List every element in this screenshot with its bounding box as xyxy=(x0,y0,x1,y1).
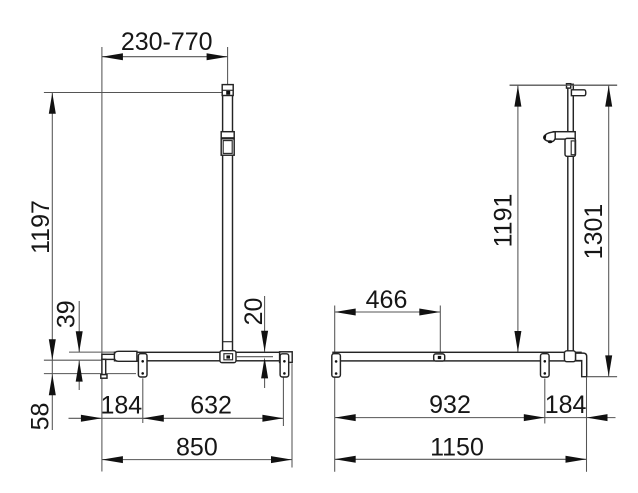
bottom elbow xyxy=(564,351,575,362)
dimension 230-770 line xyxy=(102,56,228,58)
svg-text:184: 184 xyxy=(100,392,142,420)
extension line foot-bottom (y=373.6) xyxy=(44,373,136,375)
svg-text:230-770: 230-770 xyxy=(121,28,213,56)
dimension 850 line xyxy=(102,459,292,461)
dimension 20 line xyxy=(264,296,266,352)
arrow 632 left xyxy=(143,415,164,422)
extension line flange1 center (x=142.8) xyxy=(142,378,144,423)
svg-text:1197: 1197 xyxy=(27,200,55,254)
svg-text:20: 20 xyxy=(240,298,268,326)
flange left xyxy=(332,354,341,377)
hand shower head xyxy=(544,132,555,142)
hand shower spray tip wedge xyxy=(543,135,546,140)
svg-text:1191: 1191 xyxy=(489,194,517,248)
arrow 39 bottom xyxy=(76,361,83,382)
rail joint line xyxy=(223,341,233,343)
hook leg xyxy=(102,359,106,374)
bar left step xyxy=(102,354,115,359)
extension line top (y=85.2) xyxy=(510,84,617,86)
arrow 1191 bottom xyxy=(514,331,521,352)
dimension 466 line xyxy=(335,311,441,313)
sleeve xyxy=(114,351,136,361)
arrow 850 left xyxy=(102,456,123,463)
arrow 632 right xyxy=(262,415,283,422)
arrow 39 top xyxy=(76,331,83,352)
top wall arm xyxy=(571,90,585,96)
extension line hook-bottom (y=360.2) xyxy=(44,359,102,361)
arrow 1197 bottom xyxy=(49,339,56,360)
center clip xyxy=(434,354,445,361)
arrow 850 right xyxy=(271,456,292,463)
dimension 1197 line xyxy=(51,93,53,360)
arrow 466 right xyxy=(419,309,440,316)
arrow 20 top xyxy=(261,331,268,352)
svg-text:1150: 1150 xyxy=(430,434,484,462)
svg-text:850: 850 xyxy=(176,434,218,462)
bar tube side xyxy=(333,352,581,361)
hand shower handle xyxy=(553,132,575,139)
arrow 58 bottom xyxy=(49,374,56,395)
arrow 20 bottom xyxy=(261,357,268,378)
hook foot xyxy=(101,375,107,379)
rail tube side xyxy=(568,84,574,351)
extension line flange2 center (x=283.4) xyxy=(282,378,284,427)
wall return tube and leg xyxy=(576,353,587,377)
dimension 932/184 line xyxy=(335,417,587,419)
dimension 1191 line xyxy=(517,86,519,352)
arrow 230-770 left xyxy=(102,53,123,60)
flange F2 xyxy=(280,354,289,377)
svg-text:1301: 1301 xyxy=(580,204,608,260)
extension line leg bottom (y=376.7) xyxy=(588,376,618,378)
arrow 230-770 right xyxy=(207,53,228,60)
extension line bar right end (x=586.5) xyxy=(586,378,588,472)
bar right end box xyxy=(280,352,293,363)
rail slider xyxy=(221,132,234,138)
hand shower nub xyxy=(548,140,553,143)
extension line bar-top left (y=352.1) xyxy=(69,351,115,353)
dimension 1301 line xyxy=(608,86,610,377)
arrow 184 right outside xyxy=(587,414,608,421)
extension line bar right end (x=292) xyxy=(291,364,293,468)
arrow 1197 top xyxy=(49,93,56,114)
shower slider xyxy=(565,138,576,156)
arrow 932 left xyxy=(335,414,356,421)
arrow 1150 right xyxy=(566,456,587,463)
svg-text:632: 632 xyxy=(190,392,232,420)
rail cap side xyxy=(567,84,571,88)
arrow 1301 bottom xyxy=(605,355,612,376)
extension line rail-top (x=227.6) xyxy=(227,47,229,84)
extension line clip center (x=440.3) xyxy=(439,306,441,354)
arrow 1191 top xyxy=(514,86,521,107)
extension line flange right center (x=544.8) xyxy=(544,379,546,424)
svg-text:466: 466 xyxy=(366,286,408,314)
arrow 932 right xyxy=(524,414,545,421)
flange right xyxy=(541,354,550,377)
bar tube xyxy=(115,352,291,361)
rail-bar connector xyxy=(220,351,236,363)
dimension 1150 line xyxy=(335,458,587,460)
svg-text:932: 932 xyxy=(429,391,471,419)
extension line top bracket height (y=92.5) xyxy=(44,92,223,94)
extension line bar left end (x=334.7) xyxy=(334,306,336,472)
extension line left long (x=101.9) xyxy=(101,47,103,472)
arrow 1150 left xyxy=(335,456,356,463)
arrow 466 left xyxy=(335,309,356,316)
dimension 184/632 line xyxy=(69,417,284,419)
extension line top re-stroke xyxy=(510,84,617,86)
svg-text:58: 58 xyxy=(27,403,55,431)
flange F1 xyxy=(138,354,147,377)
svg-text:39: 39 xyxy=(53,300,81,328)
extension line rail-end 20 ref (y=356.7) xyxy=(236,356,273,358)
arrow 1301 top xyxy=(605,86,612,107)
arrow 184 left outside xyxy=(81,415,102,422)
svg-text:184: 184 xyxy=(545,391,587,419)
rail tube xyxy=(223,85,233,352)
dimension 39 line xyxy=(78,301,80,352)
dimension 58 line xyxy=(51,360,53,430)
rail cap xyxy=(222,85,233,96)
